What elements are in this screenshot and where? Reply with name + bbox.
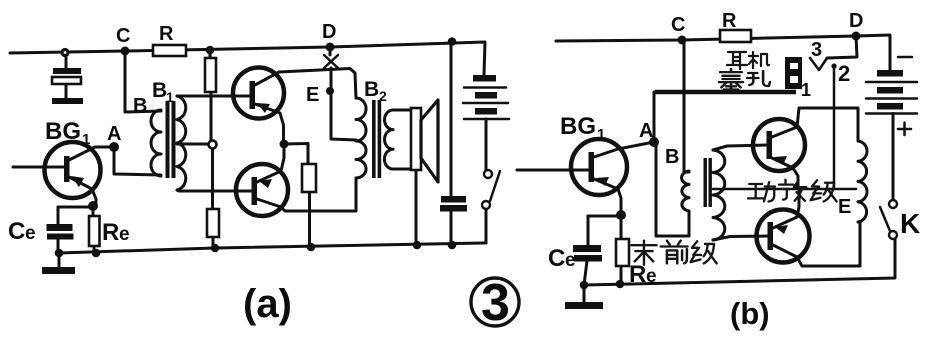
svg-text:A: A xyxy=(639,120,653,142)
svg-text:1: 1 xyxy=(801,80,811,100)
svg-text:e: e xyxy=(119,224,130,245)
svg-text:E: E xyxy=(306,84,319,106)
svg-text:R: R xyxy=(102,219,119,246)
svg-text:e: e xyxy=(646,266,657,287)
svg-text:(a): (a) xyxy=(243,282,292,326)
svg-text:3: 3 xyxy=(481,274,510,332)
svg-text:C: C xyxy=(548,245,565,272)
svg-text:A: A xyxy=(107,123,121,145)
svg-text:BG: BG xyxy=(560,113,596,140)
svg-text:D: D xyxy=(322,21,336,43)
svg-text:D: D xyxy=(849,10,863,32)
svg-text:R: R xyxy=(159,23,174,45)
svg-text:e: e xyxy=(565,250,576,271)
svg-text:C: C xyxy=(671,14,685,36)
svg-text:B: B xyxy=(665,146,679,168)
svg-text:E: E xyxy=(838,196,851,218)
svg-text:1: 1 xyxy=(597,126,605,143)
svg-text:R: R xyxy=(722,10,737,32)
svg-text:1: 1 xyxy=(82,131,90,148)
svg-text:3: 3 xyxy=(811,39,822,61)
svg-text:C: C xyxy=(116,25,130,47)
svg-text:B: B xyxy=(364,78,379,101)
svg-text:2: 2 xyxy=(838,61,850,86)
svg-text:2: 2 xyxy=(379,88,387,104)
svg-text:e: e xyxy=(25,223,36,244)
svg-text:K: K xyxy=(900,208,920,239)
svg-text:C: C xyxy=(8,218,25,245)
svg-text:B: B xyxy=(133,95,147,117)
svg-text:(b): (b) xyxy=(730,296,770,331)
svg-text:B: B xyxy=(152,79,167,102)
svg-text:BG: BG xyxy=(45,118,81,145)
svg-text:1: 1 xyxy=(166,89,174,105)
